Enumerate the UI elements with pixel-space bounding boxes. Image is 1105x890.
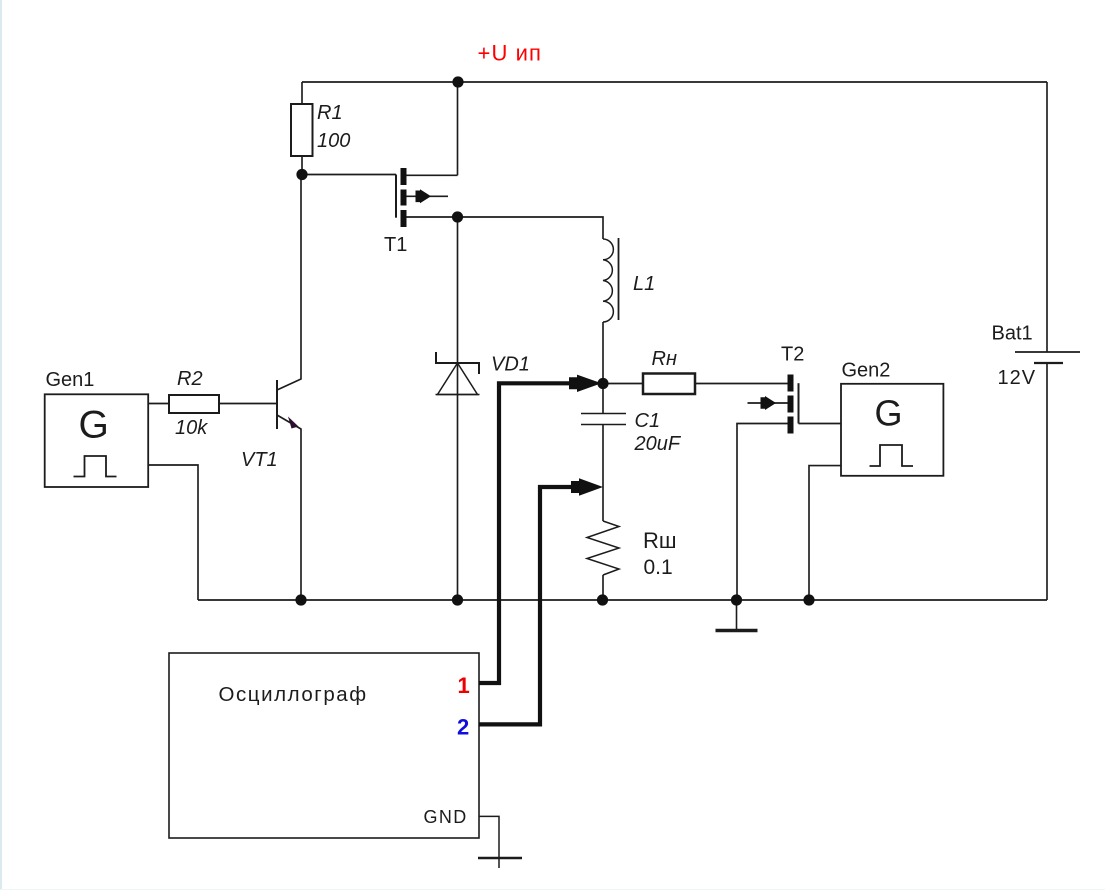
wire battery top drop (1046, 82, 1048, 352)
svg-text:T1: T1 (384, 234, 407, 256)
node T2 source rail (731, 594, 742, 605)
svg-text:10k: 10k (175, 417, 208, 439)
wire R2 to VT1 base (219, 403, 277, 405)
svg-text:Bat1: Bat1 (992, 323, 1033, 345)
transistor T2 channel bars (788, 375, 794, 434)
wire node A to Rn (603, 383, 642, 385)
wire T1 gate line (395, 175, 397, 218)
transistor VT1 emitter arrow (288, 417, 299, 429)
svg-text:T2: T2 (781, 344, 804, 366)
wire T2 gate to Gen2 (799, 423, 842, 425)
wire T2 source (737, 424, 788, 601)
svg-text:G: G (875, 393, 903, 434)
wire Gen1 lower out (148, 465, 198, 600)
wire R1 node to T1 gate (302, 174, 396, 176)
svg-text:VT1: VT1 (241, 449, 278, 471)
probe wire 1 thick (479, 383, 578, 683)
svg-text:+U ип: +U ип (478, 41, 543, 66)
transistor VT1 collector (277, 175, 301, 391)
page edge strip bottom (0, 889, 1105, 890)
battery Bat1 long plate (1015, 351, 1080, 353)
diode VD1 zener cathode bar (436, 352, 479, 374)
wire T1 source (407, 216, 458, 218)
svg-text:Rш: Rш (643, 528, 677, 553)
wire Gen1 upper out (148, 403, 169, 405)
wire T1 drain (407, 174, 458, 176)
svg-text:1: 1 (458, 673, 470, 698)
generator Gen1 pulse icon (74, 456, 117, 477)
svg-text:L1: L1 (633, 273, 655, 295)
transistor VT1 base bar (276, 380, 278, 429)
wire Rn to T2 drain (695, 383, 788, 385)
wire battery bottom drop (1046, 363, 1048, 600)
wire top node to T1 drain (457, 82, 459, 175)
transistor T2 body arrow (761, 396, 777, 410)
probe wire 2 arrowhead (571, 478, 603, 495)
node VT1 emitter rail (295, 594, 306, 605)
wire Rsh bottom lead (602, 575, 604, 600)
resistor Rn (643, 374, 695, 395)
svg-text:Gen2: Gen2 (842, 360, 891, 382)
probe wire 1 arrowhead (569, 375, 602, 392)
node Rsh rail (597, 594, 608, 605)
inductor L1 core bar (618, 238, 620, 320)
generator Gen1 box (45, 394, 149, 487)
node VD1 rail (452, 594, 463, 605)
svg-text:R2: R2 (177, 368, 203, 390)
svg-text:2: 2 (457, 715, 469, 740)
wire C1 to Rsh (602, 425, 604, 522)
svg-text:GND: GND (424, 807, 468, 827)
svg-text:Gen1: Gen1 (46, 369, 95, 391)
oscilloscope box (169, 653, 479, 838)
wire T1 body lead (407, 195, 449, 197)
wire bottom rail (198, 599, 1047, 601)
svg-text:Осциллограф: Осциллограф (219, 683, 368, 706)
svg-text:C1: C1 (635, 410, 661, 432)
node R1 bottom (296, 169, 307, 180)
svg-text:VD1: VD1 (491, 354, 530, 376)
wire node A to C1 (602, 384, 604, 414)
diode VD1 base line (436, 394, 480, 396)
node top rail (452, 76, 463, 87)
svg-text:0.1: 0.1 (644, 556, 673, 579)
svg-text:Rн: Rн (652, 348, 677, 370)
probe wire 2 thick (479, 487, 576, 724)
oscilloscope ground bar (478, 857, 522, 860)
wire L1 bottom to node A (602, 322, 604, 384)
resistor R1 (291, 104, 313, 156)
wire R1 bottom lead (301, 156, 303, 175)
ground symbol at T2 source (716, 600, 758, 631)
wire Gen2 lower to ground rail (809, 466, 841, 600)
transistor T1 channel bars (401, 168, 407, 227)
generator Gen2 box (841, 384, 943, 476)
transistor T1 body arrow (416, 189, 432, 203)
battery Bat1 short plate (1034, 362, 1063, 364)
wire VD1 vertical (457, 217, 459, 600)
transistor VT1 emitter (277, 415, 301, 600)
node Gen2 rail (803, 594, 814, 605)
resistor R2 (169, 395, 219, 413)
svg-text:R1: R1 (317, 102, 343, 124)
diode VD1 triangle (438, 363, 478, 395)
svg-text:G: G (79, 404, 109, 447)
wire T2 body lead (748, 402, 788, 404)
wire T1 source to L1 (458, 217, 604, 239)
inductor L1 coil (603, 239, 613, 322)
node T1 source (452, 211, 463, 222)
svg-text:100: 100 (317, 130, 350, 152)
page edge strip left (0, 0, 2, 890)
generator Gen2 pulse icon (870, 445, 914, 466)
svg-text:20uF: 20uF (634, 433, 682, 455)
resistor Rsh zigzag (587, 521, 619, 575)
wire R1 top lead (301, 82, 303, 104)
wire T2 gate line (798, 383, 800, 423)
node A (597, 378, 608, 389)
wire top rail +U (302, 81, 1047, 83)
svg-text:12V: 12V (998, 367, 1037, 389)
oscilloscope GND wire (479, 816, 499, 868)
capacitor C1 plates (581, 414, 626, 425)
